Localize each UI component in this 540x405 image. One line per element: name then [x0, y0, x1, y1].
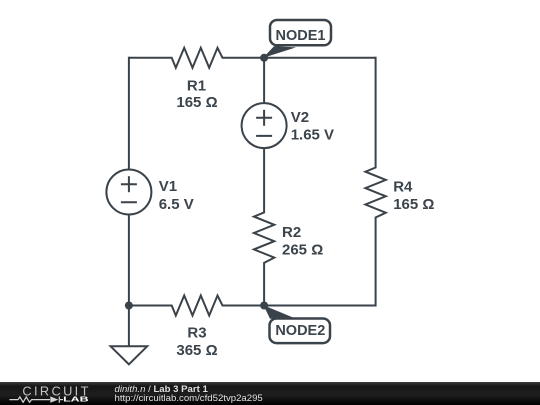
svg-text:V2: V2 [291, 109, 309, 126]
svg-text:R3: R3 [187, 324, 206, 341]
svg-text:265 Ω: 265 Ω [282, 242, 323, 259]
svg-text:365 Ω: 365 Ω [176, 342, 217, 359]
svg-text:1.65 V: 1.65 V [291, 126, 334, 143]
svg-text:R1: R1 [187, 78, 206, 95]
svg-text:NODE2: NODE2 [275, 323, 325, 339]
svg-text:R4: R4 [393, 179, 413, 196]
svg-text:LAB: LAB [63, 395, 89, 404]
svg-text:NODE1: NODE1 [276, 28, 326, 44]
svg-text:R2: R2 [282, 224, 301, 241]
svg-text:6.5 V: 6.5 V [159, 196, 194, 213]
svg-text:165 Ω: 165 Ω [393, 196, 434, 213]
svg-text:V1: V1 [159, 178, 177, 195]
svg-text:165 Ω: 165 Ω [176, 94, 217, 111]
